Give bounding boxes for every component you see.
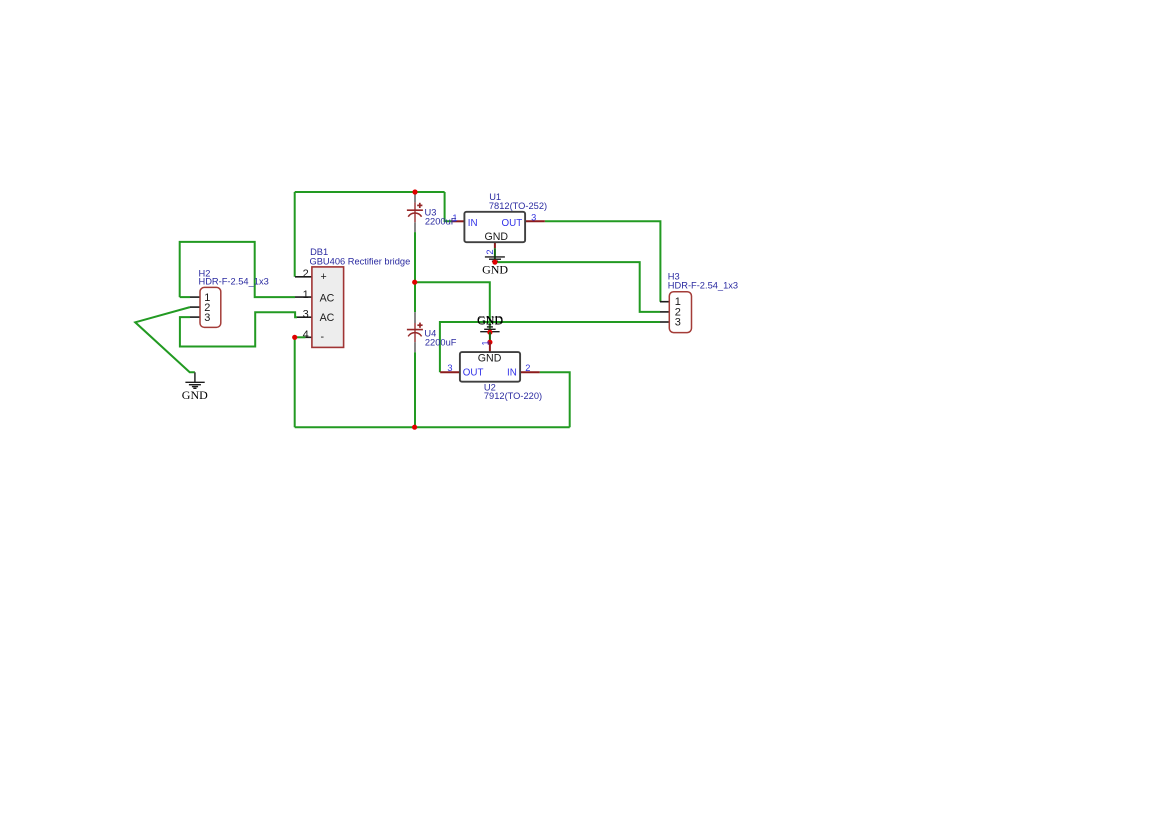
wire DB1 pin2 drop (294, 192, 296, 277)
wire U2 OUT to H3 pin3 (440, 322, 660, 372)
wire bottom rail (295, 426, 570, 428)
wire U4 to bottom rail (414, 352, 416, 427)
junction dot top rail (412, 189, 417, 194)
wire U3 to center tap node (414, 232, 416, 312)
svg-text:HDR-F-2.54_1x3: HDR-F-2.54_1x3 (199, 277, 269, 287)
svg-text:2: 2 (525, 363, 530, 373)
svg-text:GND: GND (485, 231, 509, 243)
rectifier DB1 (295, 267, 344, 348)
svg-text:1: 1 (303, 289, 309, 301)
ground left (182, 372, 208, 402)
capacitor U3 (407, 194, 423, 232)
svg-text:2200uF: 2200uF (425, 217, 457, 227)
wire H2 pin2 diagonals to GND (135, 307, 195, 372)
svg-text:IN: IN (468, 218, 478, 229)
svg-text:2: 2 (303, 268, 309, 280)
wire left bottom vertical (294, 337, 296, 427)
junction dot bottom rail (412, 425, 417, 430)
svg-text:2: 2 (485, 249, 495, 254)
ground above U2 (inverted) (477, 313, 504, 332)
svg-text:3: 3 (531, 213, 536, 223)
wire U1 IN drop (445, 192, 452, 221)
svg-text:2200uF: 2200uF (425, 338, 457, 348)
svg-text:-: - (321, 331, 325, 343)
junction dot center tap (412, 280, 417, 285)
svg-text:GND: GND (478, 353, 502, 365)
svg-text:GND: GND (182, 388, 208, 402)
wire top rail to U3 (414, 192, 416, 194)
svg-text:3: 3 (303, 309, 309, 321)
wire top rail (295, 191, 445, 193)
connector H3 (660, 292, 692, 333)
svg-text:1: 1 (481, 340, 491, 345)
svg-text:AC: AC (320, 292, 335, 304)
svg-text:3: 3 (204, 312, 210, 324)
svg-text:7912(TO-220): 7912(TO-220) (484, 391, 542, 401)
svg-text:HDR-F-2.54_1x3: HDR-F-2.54_1x3 (668, 281, 738, 291)
junction dot DB1 pin4 (292, 335, 297, 340)
capacitor U4 (407, 312, 423, 352)
wire center tap to U2 gnd (415, 282, 490, 332)
regulator U1 (451, 212, 545, 262)
svg-text:GND: GND (477, 314, 503, 328)
wire U1 GND to H3 pin2 (497, 262, 660, 312)
wire H2 pin1 stub link (180, 296, 190, 298)
connector H2 (190, 287, 221, 327)
svg-text:AC: AC (320, 312, 335, 324)
wire short between dots (489, 332, 491, 342)
svg-text:3: 3 (447, 363, 452, 373)
junction dot above U2 lower (487, 340, 492, 345)
wire U2 IN (540, 372, 570, 427)
svg-text:+: + (321, 271, 327, 283)
wire H2 top loop (180, 242, 295, 297)
svg-text:IN: IN (507, 368, 517, 379)
regulator U2 (440, 340, 540, 381)
wire H2 pin3 to DB1 pin3 (180, 312, 297, 346)
svg-text:OUT: OUT (463, 368, 484, 379)
junction dot above U2 upper (487, 330, 492, 335)
svg-text:3: 3 (675, 317, 681, 329)
svg-text:4: 4 (303, 329, 309, 341)
svg-text:OUT: OUT (502, 218, 523, 229)
svg-text:GBU406 Rectifier bridge: GBU406 Rectifier bridge (310, 256, 411, 266)
wire pin4 overlap (295, 336, 306, 338)
ground U1 (482, 257, 508, 276)
wire U1 OUT to H3 pin1 (545, 221, 661, 301)
svg-text:7812(TO-252): 7812(TO-252) (489, 201, 547, 211)
junction dot U1 gnd (492, 260, 497, 265)
